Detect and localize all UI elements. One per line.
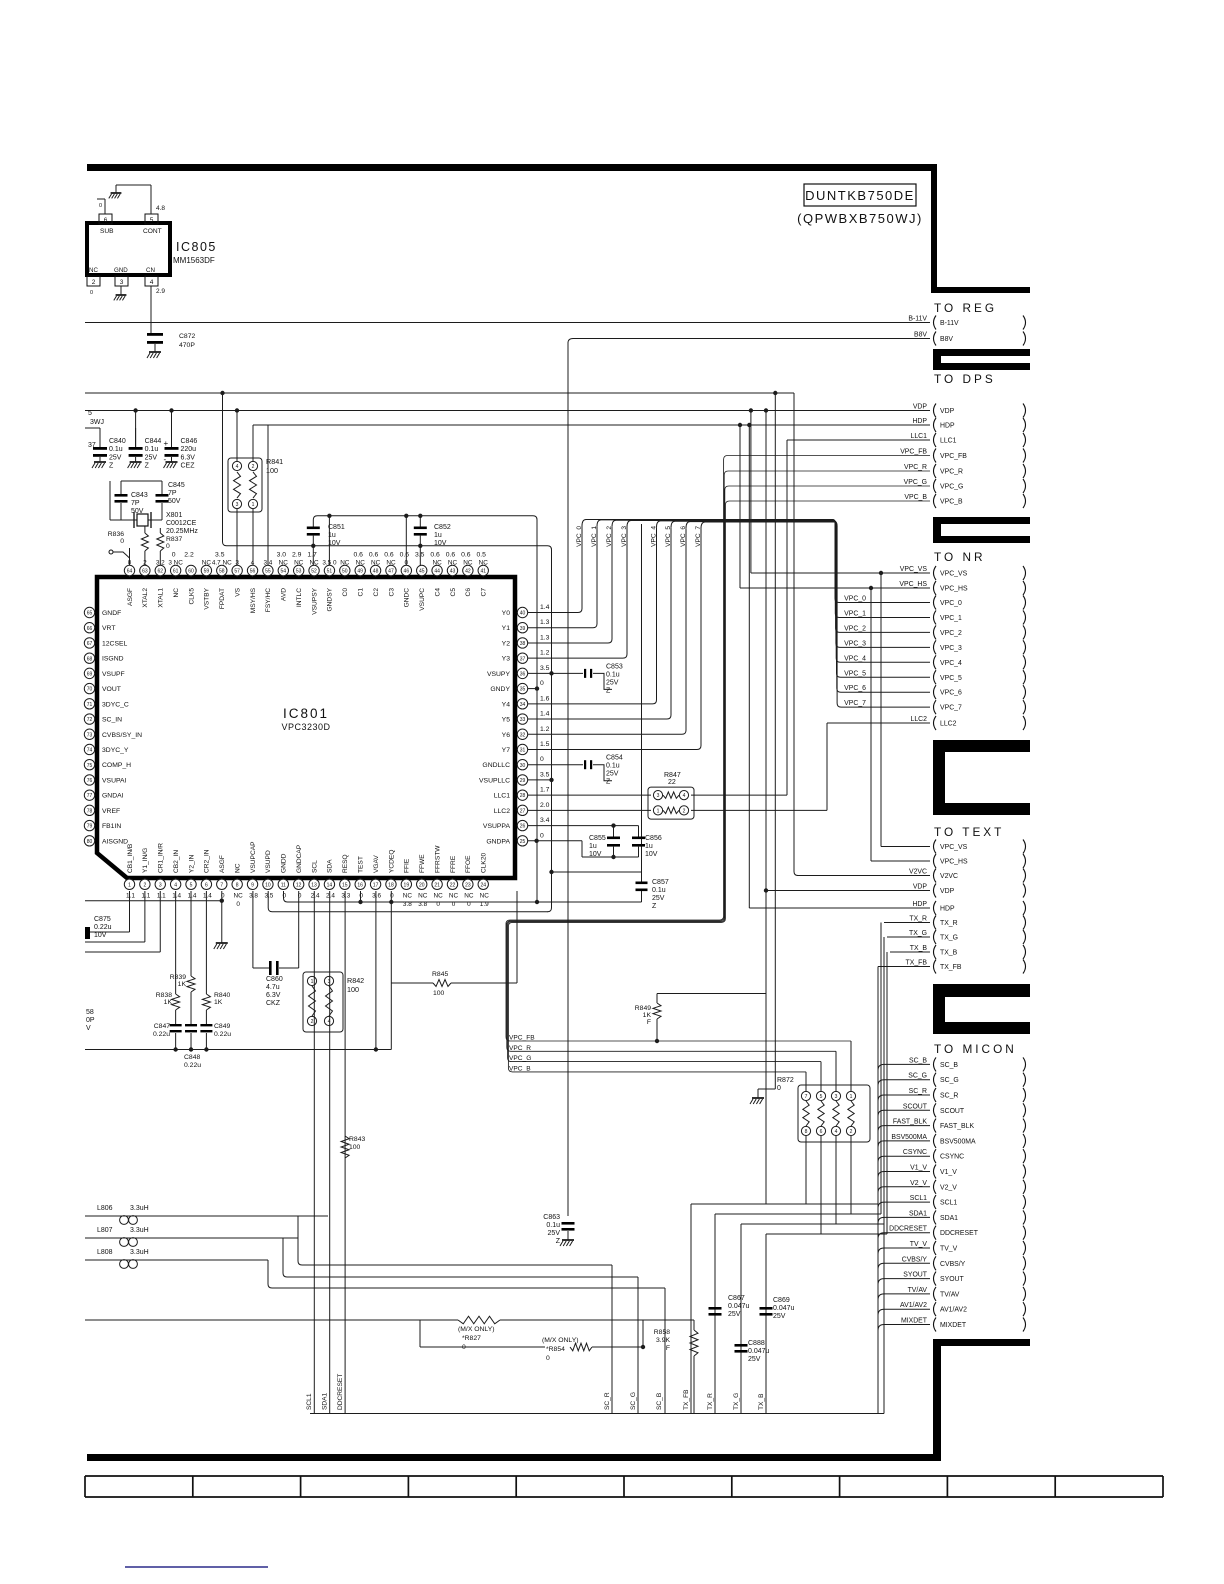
svg-text:RESQ: RESQ <box>342 854 349 873</box>
svg-text:NC: NC <box>294 560 304 567</box>
svg-text:NC: NC <box>403 893 413 900</box>
svg-text:3DYC_Y: 3DYC_Y <box>102 747 129 754</box>
svg-text:15: 15 <box>342 882 348 888</box>
svg-text:R847: R847 <box>664 772 681 779</box>
svg-text:10V: 10V <box>434 540 447 547</box>
svg-text:58: 58 <box>219 569 225 575</box>
svg-text:C851: C851 <box>328 524 345 531</box>
svg-text:25V: 25V <box>728 1311 741 1318</box>
svg-text:FFWE: FFWE <box>419 854 426 873</box>
svg-text:LLC2: LLC2 <box>940 721 957 728</box>
svg-text:SYOUT: SYOUT <box>903 1272 928 1279</box>
svg-text:3: 3 <box>835 1094 838 1100</box>
svg-text:LLC2: LLC2 <box>911 716 928 723</box>
svg-text:1u: 1u <box>434 532 442 539</box>
svg-text:GNDCAP: GNDCAP <box>296 844 303 873</box>
svg-text:NC: NC <box>479 560 489 567</box>
svg-text:1: 1 <box>311 979 314 985</box>
svg-text:CONT: CONT <box>143 228 162 235</box>
svg-text:VPC_2: VPC_2 <box>606 526 613 547</box>
svg-text:B8V: B8V <box>914 332 927 339</box>
svg-text:50V: 50V <box>168 498 181 505</box>
svg-text:25V: 25V <box>548 1230 561 1237</box>
svg-text:NC: NC <box>356 560 366 567</box>
svg-text:37: 37 <box>88 442 96 449</box>
svg-text:6: 6 <box>104 217 108 224</box>
svg-text:C857: C857 <box>652 879 669 886</box>
svg-text:R837: R837 <box>166 536 182 543</box>
svg-text:7P: 7P <box>131 500 140 507</box>
svg-text:VPC3230D: VPC3230D <box>281 722 330 732</box>
svg-text:SDA1: SDA1 <box>909 1210 927 1217</box>
svg-text:C848: C848 <box>184 1054 200 1061</box>
svg-text:35: 35 <box>520 687 526 693</box>
svg-text:10V: 10V <box>328 540 341 547</box>
svg-text:NC: NC <box>418 893 428 900</box>
svg-text:HDP: HDP <box>940 423 955 430</box>
svg-text:3.5: 3.5 <box>264 893 273 900</box>
svg-text:TX_B: TX_B <box>910 945 928 952</box>
svg-text:B-11V: B-11V <box>908 316 927 323</box>
svg-text:0.6: 0.6 <box>384 552 394 559</box>
svg-text:7P: 7P <box>168 490 177 497</box>
svg-text:VPC_FB: VPC_FB <box>509 1035 535 1042</box>
svg-text:NC: NC <box>464 893 474 900</box>
svg-text:GNDSY: GNDSY <box>327 587 334 611</box>
svg-text:ISGND: ISGND <box>102 656 124 663</box>
svg-text:0.6: 0.6 <box>446 552 456 559</box>
svg-text:3 NC: 3 NC <box>168 560 183 567</box>
svg-text:47: 47 <box>388 569 394 575</box>
svg-text:CVBS/SY_IN: CVBS/SY_IN <box>102 732 142 739</box>
svg-text:GNDPA: GNDPA <box>486 838 510 845</box>
svg-text:C867: C867 <box>728 1295 745 1302</box>
svg-text:25V: 25V <box>109 454 122 461</box>
svg-text:5: 5 <box>190 882 193 888</box>
svg-text:54: 54 <box>281 569 287 575</box>
svg-text:V2VC: V2VC <box>909 869 927 876</box>
svg-text:V: V <box>86 1025 91 1032</box>
svg-text:VPC_3: VPC_3 <box>844 640 866 647</box>
svg-text:1.7: 1.7 <box>307 552 317 559</box>
svg-text:HDP: HDP <box>912 418 927 425</box>
svg-text:3.3: 3.3 <box>341 893 350 900</box>
svg-text:45: 45 <box>419 569 425 575</box>
svg-text:VPC_1: VPC_1 <box>591 526 598 547</box>
svg-text:0: 0 <box>90 290 93 296</box>
svg-text:VPC_R: VPC_R <box>509 1045 531 1052</box>
svg-text:3: 3 <box>159 882 162 888</box>
svg-text:MM1563DF: MM1563DF <box>173 256 215 265</box>
svg-text:INTLC: INTLC <box>296 588 303 607</box>
svg-text:NC: NC <box>89 267 98 274</box>
svg-text:VDP: VDP <box>940 408 955 415</box>
svg-text:5: 5 <box>820 1094 823 1100</box>
svg-text:0.22u: 0.22u <box>94 924 112 931</box>
svg-text:11: 11 <box>281 882 286 888</box>
svg-text:IC801: IC801 <box>283 706 329 721</box>
svg-text:VSUPC: VSUPC <box>419 588 426 611</box>
svg-text:FB1IN: FB1IN <box>102 823 121 830</box>
svg-text:100: 100 <box>433 990 445 997</box>
svg-text:NC: NC <box>463 560 473 567</box>
svg-text:Y1: Y1 <box>502 625 511 632</box>
svg-text:C860: C860 <box>266 976 283 983</box>
svg-text:*R854: *R854 <box>546 1346 565 1353</box>
svg-text:(M/X ONLY): (M/X ONLY) <box>542 1337 579 1344</box>
svg-text:34: 34 <box>520 702 526 708</box>
svg-text:TV/AV: TV/AV <box>940 1291 960 1298</box>
svg-text:SC_B: SC_B <box>656 1392 663 1410</box>
svg-text:4.8: 4.8 <box>156 205 165 212</box>
svg-text:76: 76 <box>87 778 93 784</box>
svg-text:1.6: 1.6 <box>540 695 550 702</box>
svg-text:TX_G: TX_G <box>940 935 958 942</box>
svg-text:C888: C888 <box>748 1340 765 1347</box>
svg-text:TV/AV: TV/AV <box>908 1287 928 1294</box>
svg-text:XTAL2: XTAL2 <box>142 588 149 608</box>
svg-text:C872: C872 <box>179 333 195 340</box>
svg-text:TX_R: TX_R <box>940 920 958 927</box>
svg-text:YCDEQ: YCDEQ <box>388 850 395 873</box>
svg-text:V2_V: V2_V <box>940 1184 957 1191</box>
svg-text:14: 14 <box>327 882 333 888</box>
svg-text:2: 2 <box>311 1019 314 1025</box>
svg-text:VSUPAI: VSUPAI <box>102 777 127 784</box>
svg-text:3.0: 3.0 <box>277 552 287 559</box>
svg-text:0: 0 <box>99 203 102 209</box>
svg-text:NC: NC <box>309 560 319 567</box>
svg-text:CR2_IN: CR2_IN <box>204 849 211 873</box>
svg-text:CVBS/Y: CVBS/Y <box>902 1256 928 1263</box>
svg-text:R843: R843 <box>349 1136 365 1143</box>
svg-text:100: 100 <box>349 1144 361 1151</box>
svg-text:NC: NC <box>340 560 350 567</box>
svg-text:AVD: AVD <box>281 588 288 601</box>
svg-text:0: 0 <box>166 543 170 550</box>
svg-text:HDP: HDP <box>940 906 955 913</box>
svg-text:VGAV: VGAV <box>373 855 380 873</box>
svg-text:FFRE: FFRE <box>450 855 457 873</box>
svg-text:9: 9 <box>251 882 254 888</box>
svg-text:C875: C875 <box>94 916 111 923</box>
svg-text:LLC1: LLC1 <box>940 438 957 445</box>
svg-text:1.3: 1.3 <box>540 634 550 641</box>
svg-text:0.047u: 0.047u <box>773 1305 795 1312</box>
svg-text:CSYNC: CSYNC <box>903 1149 927 1156</box>
svg-text:57: 57 <box>234 569 240 575</box>
svg-text:TX_G: TX_G <box>733 1393 740 1410</box>
svg-text:VPC_1: VPC_1 <box>844 610 866 617</box>
svg-text:VDP: VDP <box>940 888 955 895</box>
svg-text:470P: 470P <box>179 342 195 349</box>
svg-text:50: 50 <box>342 569 348 575</box>
svg-text:220u: 220u <box>181 446 197 453</box>
svg-text:C844: C844 <box>145 438 162 445</box>
svg-text:B8V: B8V <box>940 336 953 343</box>
svg-text:32: 32 <box>520 732 526 738</box>
svg-text:0.047u: 0.047u <box>748 1348 770 1355</box>
svg-text:2: 2 <box>143 882 146 888</box>
svg-text:25V: 25V <box>748 1356 761 1363</box>
svg-text:2.2: 2.2 <box>184 552 194 559</box>
svg-text:VPC_B: VPC_B <box>904 494 927 501</box>
svg-text:SDA1: SDA1 <box>940 1215 958 1222</box>
svg-text:37: 37 <box>520 656 526 662</box>
svg-text:77: 77 <box>87 793 93 799</box>
svg-text:SC_R: SC_R <box>604 1392 611 1410</box>
svg-text:2.4: 2.4 <box>326 893 335 900</box>
svg-text:3.4: 3.4 <box>540 817 550 824</box>
svg-text:0.1u: 0.1u <box>109 446 123 453</box>
svg-text:1.4: 1.4 <box>540 604 550 611</box>
svg-text:L808: L808 <box>97 1249 113 1256</box>
svg-text:SYOUT: SYOUT <box>940 1276 965 1283</box>
svg-text:TEST: TEST <box>358 856 365 873</box>
svg-text:TO NR: TO NR <box>934 550 986 564</box>
svg-text:VPC_0: VPC_0 <box>940 600 962 607</box>
svg-text:63: 63 <box>142 569 148 575</box>
svg-text:MIXDET: MIXDET <box>901 1318 928 1325</box>
svg-text:4.7 NC: 4.7 NC <box>212 560 232 567</box>
svg-text:25V: 25V <box>773 1313 786 1320</box>
svg-text:Z: Z <box>145 463 150 470</box>
svg-text:0.1u: 0.1u <box>606 763 620 770</box>
svg-text:0: 0 <box>540 756 544 763</box>
svg-text:60: 60 <box>188 569 194 575</box>
svg-text:21: 21 <box>434 882 440 888</box>
svg-text:3.5: 3.5 <box>215 552 225 559</box>
svg-text:SC_R: SC_R <box>940 1093 958 1100</box>
svg-text:VSUPY: VSUPY <box>487 671 511 678</box>
svg-text:C855: C855 <box>589 835 606 842</box>
svg-text:5: 5 <box>88 410 92 417</box>
svg-text:BSV500MA: BSV500MA <box>940 1138 976 1145</box>
svg-text:1: 1 <box>128 882 131 888</box>
svg-text:75: 75 <box>87 763 93 769</box>
svg-text:3: 3 <box>236 502 239 508</box>
svg-text:VOUT: VOUT <box>102 686 121 693</box>
svg-text:TX_B: TX_B <box>758 1393 765 1410</box>
svg-text:TO DPS: TO DPS <box>934 372 996 386</box>
svg-text:SC_IN: SC_IN <box>102 717 122 724</box>
svg-text:VSUPCAP: VSUPCAP <box>250 841 257 873</box>
svg-text:66: 66 <box>87 626 93 632</box>
svg-text:FFRSTW: FFRSTW <box>434 845 441 873</box>
svg-text:TX_FB: TX_FB <box>940 964 962 971</box>
svg-text:C0: C0 <box>342 588 349 597</box>
svg-text:VSUPLLC: VSUPLLC <box>479 777 510 784</box>
svg-text:6.3V: 6.3V <box>266 992 281 999</box>
svg-text:SC_R: SC_R <box>909 1088 927 1095</box>
svg-text:1.1: 1.1 <box>157 893 166 900</box>
svg-text:53: 53 <box>296 569 302 575</box>
svg-text:X801: X801 <box>166 512 182 519</box>
svg-text:3.3uH: 3.3uH <box>130 1227 149 1234</box>
svg-text:VPC_2: VPC_2 <box>940 630 962 637</box>
svg-text:3.5: 3.5 <box>540 771 550 778</box>
svg-text:TX_B: TX_B <box>940 950 958 957</box>
svg-text:0.1u: 0.1u <box>546 1222 560 1229</box>
svg-text:CLK20: CLK20 <box>481 853 488 873</box>
svg-text:C852: C852 <box>434 524 451 531</box>
svg-text:VPC_3: VPC_3 <box>621 526 628 547</box>
svg-text:XTAL1: XTAL1 <box>158 588 165 608</box>
svg-text:BSV500MA: BSV500MA <box>891 1134 927 1141</box>
svg-text:LLC2: LLC2 <box>494 808 510 815</box>
svg-text:3: 3 <box>657 793 660 799</box>
svg-text:Y7: Y7 <box>502 747 511 754</box>
svg-text:30: 30 <box>520 763 526 769</box>
svg-text:AV1/AV2: AV1/AV2 <box>900 1302 927 1309</box>
svg-text:100: 100 <box>347 985 359 994</box>
svg-text:38: 38 <box>520 641 526 647</box>
svg-text:VRT: VRT <box>102 625 115 632</box>
svg-text:FSY/HC: FSY/HC <box>265 588 272 612</box>
svg-text:NC: NC <box>234 863 241 873</box>
svg-text:VPC_7: VPC_7 <box>844 700 866 707</box>
svg-text:R858: R858 <box>654 1329 670 1336</box>
svg-text:0: 0 <box>120 538 124 545</box>
svg-text:3.5: 3.5 <box>540 665 550 672</box>
svg-text:C847: C847 <box>154 1023 170 1030</box>
svg-text:0.6: 0.6 <box>461 552 471 559</box>
svg-text:0: 0 <box>546 1355 550 1362</box>
svg-text:LLC1: LLC1 <box>494 793 510 800</box>
svg-text:V2VC: V2VC <box>940 873 958 880</box>
svg-text:FAST_BLK: FAST_BLK <box>893 1119 927 1126</box>
svg-text:VSUPF: VSUPF <box>102 671 125 678</box>
svg-text:24: 24 <box>480 882 486 888</box>
svg-text:Y6: Y6 <box>502 732 511 739</box>
svg-text:61: 61 <box>173 569 179 575</box>
svg-text:Y4: Y4 <box>502 701 511 708</box>
svg-text:-: - <box>164 455 167 464</box>
svg-text:8: 8 <box>805 1129 808 1135</box>
svg-text:R840: R840 <box>214 992 230 999</box>
svg-text:VSUPD: VSUPD <box>265 850 272 873</box>
svg-text:V1_V: V1_V <box>940 1169 957 1176</box>
svg-text:10: 10 <box>265 882 271 888</box>
svg-text:(QPWBXB750WJ): (QPWBXB750WJ) <box>797 211 923 226</box>
svg-text:Y0: Y0 <box>502 610 511 617</box>
svg-text:VS: VS <box>234 587 241 596</box>
svg-text:58: 58 <box>86 1009 94 1016</box>
svg-text:FFIE: FFIE <box>404 858 411 873</box>
svg-text:VPC_7: VPC_7 <box>940 705 962 712</box>
svg-text:Y2_IN: Y2_IN <box>188 854 195 873</box>
svg-text:19: 19 <box>404 882 410 888</box>
svg-text:79: 79 <box>87 824 93 830</box>
svg-text:20: 20 <box>419 882 425 888</box>
svg-text:42: 42 <box>465 569 471 575</box>
svg-text:1.4: 1.4 <box>172 893 181 900</box>
svg-text:SCL1: SCL1 <box>940 1200 957 1207</box>
svg-text:SC_B: SC_B <box>940 1062 958 1069</box>
svg-text:VPC_G: VPC_G <box>904 479 927 486</box>
svg-text:4: 4 <box>236 464 239 470</box>
svg-text:2: 2 <box>850 1129 853 1135</box>
svg-text:L806: L806 <box>97 1205 113 1212</box>
svg-text:ASGF: ASGF <box>127 588 134 606</box>
svg-text:R849: R849 <box>635 1005 651 1012</box>
svg-text:0.6: 0.6 <box>400 552 410 559</box>
svg-text:3.8: 3.8 <box>249 893 258 900</box>
svg-text:2.4: 2.4 <box>311 893 320 900</box>
svg-text:VPC_5: VPC_5 <box>665 526 672 547</box>
svg-text:GNDLLC: GNDLLC <box>482 762 510 769</box>
svg-text:C3: C3 <box>388 588 395 597</box>
svg-text:17: 17 <box>373 882 379 888</box>
svg-text:20.25MHz: 20.25MHz <box>166 528 198 535</box>
svg-text:0.6: 0.6 <box>430 552 440 559</box>
svg-text:C2: C2 <box>373 588 380 597</box>
svg-text:48: 48 <box>373 569 379 575</box>
svg-text:MSY/HS: MSY/HS <box>250 587 257 613</box>
svg-text:NC: NC <box>449 893 459 900</box>
svg-text:Y1_IN/G: Y1_IN/G <box>142 848 149 873</box>
svg-text:4.7u: 4.7u <box>266 984 280 991</box>
svg-text:78: 78 <box>87 808 93 814</box>
svg-text:25V: 25V <box>606 679 619 686</box>
svg-text:VPC_2: VPC_2 <box>844 625 866 632</box>
svg-text:DUNTKB750DE: DUNTKB750DE <box>805 188 915 203</box>
svg-text:VSTBY: VSTBY <box>204 587 211 609</box>
svg-text:C846: C846 <box>181 438 198 445</box>
svg-text:68: 68 <box>87 656 93 662</box>
svg-text:VPC_5: VPC_5 <box>940 675 962 682</box>
svg-text:C843: C843 <box>131 492 148 499</box>
svg-text:SC_G: SC_G <box>630 1392 637 1410</box>
svg-text:VPC_R: VPC_R <box>904 464 927 471</box>
svg-text:1.4: 1.4 <box>203 893 212 900</box>
svg-text:R841: R841 <box>266 457 283 466</box>
svg-text:0.1u: 0.1u <box>145 446 159 453</box>
svg-text:CVBS/Y: CVBS/Y <box>940 1261 966 1268</box>
svg-text:CN: CN <box>146 267 155 274</box>
svg-text:Z: Z <box>606 687 611 694</box>
svg-text:TX_FB: TX_FB <box>683 1389 690 1410</box>
svg-text:12CSEL: 12CSEL <box>102 640 128 647</box>
svg-text:39: 39 <box>520 626 526 632</box>
svg-text:0: 0 <box>540 680 544 687</box>
svg-text:25V: 25V <box>145 454 158 461</box>
svg-text:73: 73 <box>87 732 93 738</box>
svg-text:GNDD: GNDD <box>281 853 288 873</box>
svg-text:SCOUT: SCOUT <box>940 1108 965 1115</box>
svg-text:CEZ: CEZ <box>181 463 196 470</box>
svg-text:NC: NC <box>433 893 443 900</box>
svg-text:V1_V: V1_V <box>910 1165 927 1172</box>
svg-text:C840: C840 <box>109 438 126 445</box>
svg-text:GNDF: GNDF <box>102 610 121 617</box>
svg-text:1: 1 <box>252 502 255 508</box>
svg-text:0: 0 <box>172 552 176 559</box>
svg-text:*R827: *R827 <box>462 1335 481 1342</box>
svg-text:44: 44 <box>434 569 440 575</box>
svg-text:VDP: VDP <box>913 884 928 891</box>
svg-text:VPC_0: VPC_0 <box>844 596 866 603</box>
svg-text:0.22u: 0.22u <box>214 1031 231 1038</box>
svg-text:VPC_VS: VPC_VS <box>940 571 968 578</box>
svg-text:VPC_B: VPC_B <box>940 499 963 506</box>
svg-text:FAST_BLK: FAST_BLK <box>940 1123 974 1130</box>
svg-text:SCL: SCL <box>311 860 318 873</box>
svg-text:C0012CE: C0012CE <box>166 520 197 527</box>
svg-text:31: 31 <box>520 748 526 754</box>
svg-text:51: 51 <box>327 569 333 575</box>
svg-text:70: 70 <box>87 687 93 693</box>
